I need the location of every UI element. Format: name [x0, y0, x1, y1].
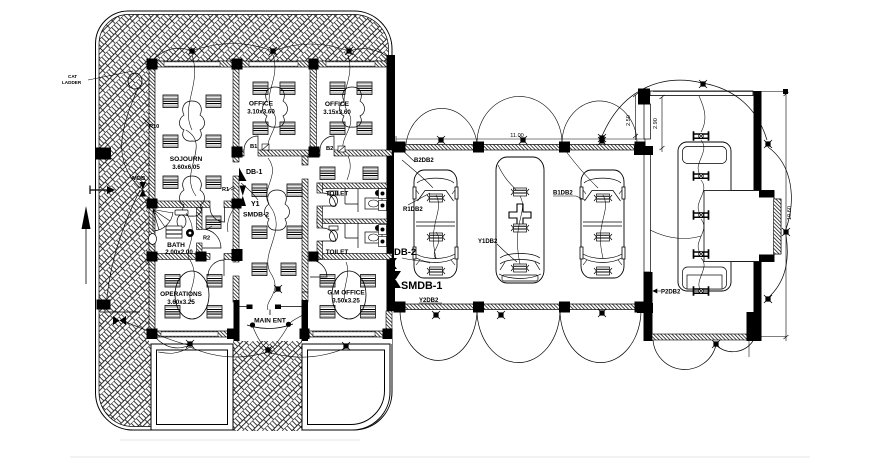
rb arc bottom 2 [716, 341, 753, 352]
door pivot left [250, 322, 255, 327]
bottom wall window left [161, 332, 218, 336]
vestibule wall right (black) [302, 300, 309, 341]
column sojourn R [232, 199, 242, 209]
desk office2 4 [357, 122, 372, 135]
middle spine wall seg1 [233, 156, 239, 162]
top wall [149, 61, 392, 67]
top wall window mid [249, 62, 298, 66]
door tick B1 [262, 144, 269, 150]
rb stub line [748, 312, 750, 357]
svg-text:B2: B2 [326, 146, 333, 152]
door office1 [244, 136, 258, 150]
wall sojourn/office1 [233, 61, 239, 156]
top wall window right [326, 62, 375, 66]
wire arc top band 1 [151, 48, 192, 62]
desk sojourn 2 [206, 95, 221, 108]
ambulance wire [498, 165, 523, 264]
door gm office [310, 260, 327, 277]
column bottom 4 [383, 329, 393, 340]
door operations [208, 260, 224, 276]
Y1DB2 leader [497, 244, 517, 262]
svg-text:SMDB-1: SMDB-1 [401, 280, 442, 292]
gm office top wall [310, 254, 392, 260]
garage column t1 [394, 142, 406, 153]
rb jamb hatch [774, 199, 782, 254]
garage column b3 [559, 302, 570, 313]
rb jamb cap top [759, 191, 774, 198]
wire office1 a [269, 55, 275, 112]
column mid t2 [309, 147, 320, 158]
desk sojourn 1 [163, 95, 178, 108]
wire arc top band 4 [349, 49, 389, 58]
door tick B2 [338, 146, 345, 152]
right wall bottom seg [386, 311, 392, 337]
rb protruding room [704, 191, 774, 262]
light middle [274, 285, 282, 293]
column bottom 2 [227, 329, 237, 340]
R1DB2 leader [408, 193, 430, 205]
wire middle b [268, 206, 276, 272]
rb chair 2 [694, 171, 709, 181]
toilet2 wc [329, 226, 338, 242]
svg-text:2.90: 2.90 [653, 118, 659, 129]
toilet top wall [317, 183, 387, 189]
bath wc [175, 210, 188, 228]
door office2 [320, 136, 334, 150]
left wall [149, 61, 155, 337]
panel MDB bowtie [140, 182, 147, 197]
toilet left wall seg1 [317, 183, 323, 193]
desk sojourn 3 [163, 135, 178, 148]
svg-text:R10: R10 [149, 124, 159, 130]
garage bottom wall [396, 304, 645, 310]
rb arc top 1 [600, 80, 702, 141]
desk operations 2 [207, 275, 222, 288]
bottom wall [149, 331, 392, 337]
bath bottom wall seg1 [149, 254, 210, 260]
toilet2 sink bowl [369, 234, 379, 241]
rb light top [699, 80, 707, 88]
svg-text:3.50x3.25: 3.50x3.25 [332, 298, 360, 305]
rb right wall lower black [754, 258, 762, 341]
door toilet2 [323, 228, 336, 241]
vestibule top wall tick R [275, 305, 281, 310]
rb table bottom inset [683, 267, 727, 289]
wire middle a [267, 158, 273, 206]
bath right wall seg1 [197, 208, 203, 230]
left band bowtie [113, 316, 126, 325]
desk office2 2 [357, 82, 372, 95]
chair blob sojourn a [180, 101, 205, 141]
ambulance jbox1 [511, 188, 529, 196]
desk middle 5 [252, 263, 267, 276]
wire office2 a [344, 55, 350, 112]
middle spine wall seg3 [233, 276, 239, 302]
garage column t2 [473, 142, 484, 153]
desk office2 3 [330, 122, 345, 135]
rb light bottom [712, 340, 720, 348]
column top t2 [309, 59, 319, 70]
column bottom 1 [147, 329, 158, 340]
rb left wall top col [638, 89, 650, 105]
chair blob middle a [265, 190, 290, 230]
ambulance jbox3 [511, 264, 529, 272]
boundary block lower [97, 300, 111, 310]
panel DB-2 bowtie [389, 258, 397, 269]
rb jamb cap bottom (top) [759, 255, 774, 262]
desk corridor 2 [363, 167, 378, 180]
rb bottom right col [747, 312, 759, 341]
column bath R [196, 252, 207, 262]
building floor white [149, 61, 392, 344]
ambulance cross [509, 204, 531, 226]
garage light b2 [497, 311, 505, 319]
svg-text:3.60x6.05: 3.60x6.05 [172, 164, 200, 171]
wire bottom band 3 [268, 348, 346, 357]
wall under offices seg2 [258, 150, 320, 156]
column bottom 3 [300, 329, 310, 340]
door toilet1 [323, 193, 336, 206]
rb bottom wall [652, 334, 753, 340]
svg-text:Y1: Y1 [251, 201, 260, 208]
rb chair 5 [694, 286, 709, 296]
svg-text:OPERATIONS: OPERATIONS [160, 291, 203, 298]
light bottom 3 [342, 342, 350, 350]
rb chair 3 [694, 210, 709, 220]
door center tick [269, 310, 271, 316]
svg-text:BATH: BATH [167, 242, 185, 249]
car right [580, 170, 625, 278]
rb light left [598, 137, 606, 145]
garage light b1 [432, 311, 440, 319]
rb bottom ext line [753, 336, 786, 338]
toilet1 sink [365, 198, 382, 209]
bath washer [186, 229, 194, 237]
site boundary inner line [99, 14, 389, 426]
column bath L [147, 252, 158, 262]
boundary block upper [95, 148, 111, 160]
rb dim top line [653, 91, 786, 93]
desk sojourn 7 [206, 216, 221, 229]
rb top wall [650, 91, 753, 96]
toilet1 partition [345, 189, 358, 213]
toilet left wall seg2 [317, 206, 323, 228]
desk sojourn 4 [206, 135, 221, 148]
wall x302 seg3 [302, 292, 308, 302]
wire sojourn b [186, 130, 196, 196]
P2DB2 arrow [653, 289, 661, 293]
toilet1 sink bowl [369, 200, 379, 207]
right wall black upper [387, 55, 396, 152]
middle spine wall seg2 [233, 176, 239, 262]
panel DB-1 flag [239, 168, 247, 182]
bath right wall seg2 [197, 243, 203, 260]
wire arc top band 2 [192, 44, 273, 52]
light bottom 1 [186, 340, 194, 348]
wall x302 seg1 [302, 156, 308, 165]
desk operations 4 [207, 306, 222, 319]
rb protruding room overlay [704, 191, 774, 262]
wire db1 area [227, 183, 258, 232]
rb table top inset [683, 147, 727, 164]
left band path line [100, 311, 140, 313]
site boundary outer line [96, 11, 393, 430]
desk office1 1 [253, 82, 268, 95]
rb dim top square [783, 89, 788, 94]
garage arc above 3 [562, 101, 637, 144]
rb dim 2.90 line [660, 95, 665, 152]
rb dim 2.50 line [633, 93, 638, 140]
rb arc top 2 [702, 83, 767, 140]
desk office1 3 [253, 122, 268, 135]
rb arc bottom 1 [653, 340, 716, 369]
desk middle 3 [252, 226, 267, 239]
toilet2 drain [375, 225, 381, 231]
rb jamb hatch (top) [774, 199, 782, 254]
table gm [332, 271, 366, 319]
light top 3 [345, 47, 353, 55]
garage light a3 [598, 134, 606, 142]
garage column t4 [635, 142, 646, 153]
top wall window left [164, 62, 220, 66]
entrance walkway hatch [233, 341, 302, 431]
chair blob office2 [340, 87, 365, 127]
wire office2 b [343, 112, 351, 152]
garage top wall [396, 145, 645, 151]
desk sojourn 5 [163, 176, 178, 189]
toilet left wall seg3 [317, 241, 323, 259]
bath sink unit [166, 226, 182, 238]
chair blob office1 [263, 87, 288, 127]
wire middle c [267, 272, 275, 310]
garage light a2 [519, 136, 527, 144]
desk sojourn 6 [206, 176, 221, 189]
B2DB2 leader [402, 150, 415, 162]
vestibule wires [253, 312, 308, 350]
svg-text:B1: B1 [250, 144, 258, 150]
desk office1 4 [280, 122, 295, 135]
rb inner wire [650, 96, 705, 238]
Y2DB2 underline [419, 302, 442, 304]
wire to planter [126, 322, 190, 353]
vestibule top wall tick L [247, 305, 253, 310]
desk middle 1 [252, 184, 267, 197]
door bath [202, 229, 221, 248]
light top 2 [269, 47, 277, 55]
bath corner basin [149, 234, 157, 245]
svg-text:SMDB-2: SMDB-2 [243, 212, 269, 219]
vestibule top wall line [240, 306, 303, 308]
rb light right low [764, 295, 772, 303]
door sojourn [210, 208, 225, 223]
svg-text:MAIN ENT: MAIN ENT [254, 318, 286, 325]
rb light right [764, 140, 772, 148]
svg-text:3.60x3.25: 3.60x3.25 [167, 299, 195, 306]
rb chair wires [698, 140, 704, 291]
main entrance double door [247, 324, 293, 329]
garage arc above 1 [406, 108, 477, 144]
wire operations [186, 213, 194, 302]
car left jbox3 [427, 267, 445, 275]
desk operations 1 [165, 275, 180, 288]
svg-text:CAT: CAT [68, 74, 77, 79]
garage arc above 2 [477, 96, 562, 143]
garage column t3 [559, 142, 570, 153]
svg-text:TOILET: TOILET [326, 191, 349, 198]
wire gm [344, 262, 347, 302]
toilet2 partition [345, 223, 358, 248]
svg-text:LADDER: LADDER [62, 80, 82, 85]
svg-text:G.M OFFICE: G.M OFFICE [327, 290, 365, 297]
wall under offices seg3 [334, 150, 392, 156]
north arrow [85, 228, 87, 284]
wall office1/office2 [310, 61, 317, 156]
rb chair 1 [694, 131, 709, 141]
svg-text:3.15x3.60: 3.15x3.60 [323, 109, 351, 116]
garage arc below 3 [560, 310, 641, 363]
wire arc top band 3 [273, 44, 349, 51]
R2 tick [206, 226, 212, 230]
desk office1 2 [280, 82, 295, 95]
rb table bottom tray [687, 275, 722, 289]
chair blob sojourn b [180, 176, 205, 216]
wire sojourn a [188, 55, 194, 130]
light bottom 2 [264, 346, 272, 354]
car left [413, 170, 458, 278]
desk gm 1 [320, 275, 335, 288]
desk middle 6 [281, 263, 296, 276]
desk corridor 1 [320, 167, 335, 180]
svg-text:DB-2: DB-2 [394, 247, 416, 258]
rb dim mid square [782, 228, 790, 236]
svg-text:B2DB2: B2DB2 [414, 158, 434, 164]
garage column b4 [635, 302, 646, 313]
svg-text:R2: R2 [203, 236, 210, 242]
svg-text:R1DB2: R1DB2 [403, 207, 423, 213]
rb arc right 1 [768, 147, 791, 229]
garage arc below 1 [400, 310, 477, 361]
wire bottom band 2 [190, 347, 268, 357]
panel SMDB-1 bowtie [390, 271, 401, 288]
door pivot right [286, 322, 291, 327]
garage column b1 [394, 302, 406, 313]
rb left wall stub [634, 146, 653, 155]
rb arc right 2 [768, 235, 787, 298]
svg-text:SOJOURN: SOJOURN [170, 156, 203, 163]
rb jamb cap bottom [759, 255, 774, 262]
bottom wall window right [313, 332, 375, 336]
svg-text:TOILET: TOILET [326, 249, 349, 256]
right wall black lower [387, 258, 396, 311]
sojourn bottom wall seg1 [149, 201, 210, 208]
right wall toilet side (black) [387, 152, 395, 258]
rb left wall mid seg [644, 151, 651, 272]
toilet mid wall [317, 219, 387, 224]
wire bottom band 1 [157, 339, 190, 348]
desk gm 4 [361, 306, 376, 319]
sojourn bottom wall seg2 [224, 201, 239, 208]
svg-text:Y1DB2: Y1DB2 [478, 239, 498, 245]
toilet2 sink [365, 232, 382, 243]
garage arc below 2 [477, 310, 560, 363]
toilet1 wc [329, 191, 338, 207]
wire office1 b [268, 112, 276, 152]
entry arrow [90, 186, 107, 195]
left planter [151, 344, 233, 430]
rb right wall upper black [754, 91, 762, 195]
site paving hatch band [99, 14, 389, 426]
desk gm 3 [320, 306, 335, 319]
vestibule wall left (black) [234, 300, 240, 341]
R1 tick [228, 186, 235, 190]
wall under offices seg1 [233, 150, 244, 156]
desk operations 3 [165, 306, 180, 319]
wall x302 seg2 [302, 179, 308, 292]
column sojourn L [147, 199, 158, 209]
svg-text:2.00x2.00: 2.00x2.00 [165, 249, 193, 256]
left band wire [106, 88, 140, 310]
B1DB2 underline [553, 196, 585, 200]
garage light a1 [437, 136, 445, 144]
bath shower fan [153, 210, 173, 232]
car right jbox1 [594, 194, 612, 202]
rb dim 10.60 line [784, 92, 789, 341]
light top 1 [188, 47, 196, 55]
desk middle 4 [287, 226, 302, 239]
rb left bottom stub [637, 303, 653, 313]
garage light b3 [598, 309, 606, 317]
desk office2 1 [330, 82, 345, 95]
rb table [678, 142, 731, 291]
car right jbox2 [594, 233, 612, 241]
ambulance body [496, 157, 544, 283]
rb left wall black lower [644, 272, 653, 341]
svg-text:P2DB2: P2DB2 [661, 290, 681, 296]
car left jbox2 [427, 233, 445, 241]
panel Y1 bowtie [240, 186, 247, 207]
wire corridor [347, 156, 350, 180]
desk middle 2 [287, 184, 302, 197]
desk gm 2 [361, 275, 376, 288]
ambulance jbox2 [511, 224, 529, 232]
column mid spine [232, 249, 243, 261]
R10 tick [143, 118, 152, 127]
car right jbox3 [594, 267, 612, 275]
rb chair 4 [694, 249, 709, 259]
svg-text:DB-1: DB-1 [246, 169, 262, 176]
rb jamb cap top (top) [759, 191, 774, 198]
car left jbox1 [427, 194, 445, 202]
column top t1 [232, 59, 243, 70]
main entrance opening [240, 330, 302, 338]
car right wire [565, 150, 606, 258]
svg-text:3.10x3.60: 3.10x3.60 [247, 109, 275, 116]
table operations [175, 271, 209, 319]
circle symbol band [128, 73, 142, 89]
garage dim line [396, 136, 645, 142]
right planter [302, 344, 390, 430]
column mid t1 [232, 147, 243, 158]
svg-text:B1DB2: B1DB2 [553, 191, 573, 197]
column top-left [147, 59, 158, 70]
toilet1 drain [375, 190, 381, 196]
cat ladder leader [88, 71, 133, 80]
car left wire [402, 160, 439, 263]
svg-text:2.50: 2.50 [626, 115, 632, 126]
svg-text:OFFICE: OFFICE [325, 101, 350, 108]
column toilets B [309, 252, 319, 262]
faint watermark rows [120, 439, 360, 441]
